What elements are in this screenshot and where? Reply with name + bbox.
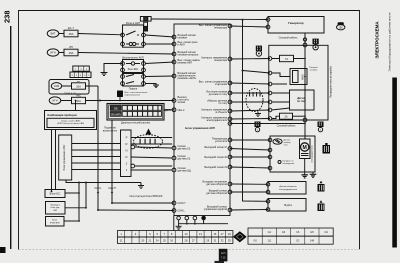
speed sensor pins (266, 183, 270, 187)
ground G2 (153, 84, 159, 86)
junction power trunk (242, 19, 244, 21)
wires ECU to motor assembly (230, 139, 270, 141)
footer smudge (215, 261, 225, 263)
wire power trunk vertical (243, 20, 269, 202)
right margin chapter text (388, 12, 392, 71)
fuse 2А (230, 118, 270, 121)
svg-text:G8: G8 (310, 230, 314, 234)
wire switch to ECU (145, 62, 174, 64)
wire generator drop (304, 33, 306, 45)
connector icon clutch (318, 200, 325, 211)
svg-text:G9: G9 (324, 230, 328, 234)
svg-text:Диагностический разъём: Диагностический разъём (121, 121, 150, 124)
arrow head stop lamp line (98, 99, 101, 101)
svg-text:G6: G6 (282, 230, 286, 234)
svg-text:C6: C6 (296, 230, 300, 234)
ground G4 shield (176, 225, 182, 227)
wire pedal switch to ground (145, 84, 156, 86)
black diamond marker (233, 231, 247, 242)
wire trunk to distribution box (243, 71, 271, 74)
pedal switch contacts (126, 75, 134, 77)
svg-text:238: 238 (3, 10, 12, 23)
CAN bus lines (94, 187, 116, 190)
wire power line to generator (151, 18, 268, 21)
svg-text:Датчик оборотов: Датчик оборотов (279, 186, 297, 188)
ECU U1 Блок управления АКП (174, 24, 230, 216)
wire ИГН to fuse 15А (59, 52, 64, 54)
motor M (300, 139, 311, 159)
triangle marker (146, 129, 152, 135)
svg-text:Электродвигатель: Электродвигатель (312, 145, 314, 163)
junction ABS bus 1 (78, 182, 80, 184)
svg-text:вставка: вставка (310, 70, 318, 72)
svg-text:датчика оборотов: датчика оборотов (206, 192, 227, 195)
ECU right pins (228, 24, 232, 212)
fuse 10А accessory (72, 97, 86, 103)
wire diag to ECU CEL (164, 109, 174, 111)
svg-text:Привод и: Привод и (50, 204, 60, 206)
junction trunk to MAX branch (242, 70, 244, 72)
wire CAN L vertical (97, 86, 99, 210)
wire selector 1 (131, 169, 172, 171)
right reference table (248, 228, 333, 244)
power cable label (279, 37, 299, 40)
svg-text:CAN H: CAN H (178, 202, 186, 205)
wire selector N (135, 147, 173, 148)
wire Привод to bus (65, 207, 86, 209)
svg-text:Спидо. лампы АКП: Спидо. лампы АКП (61, 119, 81, 122)
frame bottom edge (faint) (19, 249, 360, 251)
svg-text:G2: G2 (268, 230, 272, 234)
connector icon speed sensor (318, 181, 325, 192)
svg-text:питания: питания (178, 37, 188, 40)
svg-text:Выходной сигнал P: Выходной сигнал P (205, 146, 228, 149)
ground G5 harness (257, 112, 259, 114)
backlight label (103, 128, 118, 133)
wire fuse 25А to relay (78, 34, 123, 35)
svg-text:148: 148 (310, 238, 315, 242)
ECU pin labels left column (178, 34, 201, 212)
wire switch to ground (104, 64, 123, 73)
svg-text:111: 111 (267, 238, 271, 242)
wire stop lamp line (86, 100, 175, 102)
ground G1 (101, 72, 108, 74)
pedal switch box (123, 74, 144, 87)
wire КСС to bus (65, 192, 79, 194)
ABS control unit tall box (59, 135, 72, 180)
diagnostic connector cells row 1 (110, 106, 161, 117)
svg-text:7А: 7А (285, 57, 288, 61)
wire selector 2 (135, 165, 173, 167)
stub stop switch to wire (119, 97, 121, 101)
shield bus (179, 223, 228, 225)
ground G7 (310, 174, 317, 177)
svg-text:Выходной сигнал N: Выходной сигнал N (204, 166, 227, 169)
relay К1 contact (126, 31, 136, 35)
connector icon bottom right (318, 122, 324, 132)
arrow CAN L (97, 190, 99, 193)
wire CAN H vertical (111, 120, 113, 203)
svg-text:D: D (126, 155, 128, 159)
harness ellipse dashed 2 (246, 89, 263, 112)
svg-text:ИГН: ИГН (50, 51, 55, 55)
svg-text:E/L-7: E/L-7 (68, 27, 75, 30)
svg-text:выключатели: выключатели (103, 131, 118, 133)
wire trunk to motor (304, 120, 306, 139)
BOTTOM CONNECTOR STRIP (118, 231, 233, 244)
fuse 10А illumination (72, 83, 86, 89)
winding label (278, 161, 281, 164)
switch S1 contact (126, 63, 131, 65)
switch S1 box (123, 60, 144, 73)
svg-text:Силовой кабель: Силовой кабель (279, 37, 299, 40)
svg-text:охлаждение: охлаждение (283, 163, 296, 165)
svg-text:НД/КЛ: НД/КЛ (164, 110, 171, 112)
wires ECU to speed sensor (230, 183, 268, 185)
wire ОСВ to fuse 10А (62, 85, 72, 87)
svg-text:датчика К2: датчика К2 (178, 158, 191, 161)
ECU pin labels right column (199, 24, 228, 211)
svg-text:2А: 2А (284, 116, 287, 119)
svg-text:ИГН: ИГН (52, 99, 57, 103)
wires ECU to current sensor (230, 83, 270, 84)
stub wire to cluster (75, 101, 77, 111)
wire bus1 vertical (78, 183, 80, 222)
svg-text:кнопки: кнопки (178, 101, 186, 104)
svg-text:Коса стартера блока IPDM E/R: Коса стартера блока IPDM E/R (130, 196, 163, 198)
svg-text:электродвигателя: электродвигателя (206, 119, 227, 122)
svg-text:БАТ: БАТ (51, 32, 56, 36)
svg-text:DB (АКП): DB (АКП) (110, 113, 121, 116)
svg-text:электродвигателя: электродвигателя (279, 189, 298, 191)
MAX fusible link (268, 71, 272, 75)
wire illumination to bus (86, 85, 99, 87)
svg-text:переключателя: переключателя (125, 95, 141, 97)
svg-text:Электрооборудование на рабочем: Электрооборудование на рабочем месте (388, 12, 392, 71)
svg-text:Подсветка/: Подсветка/ (104, 128, 116, 130)
svg-text:АКС: АКС (76, 94, 81, 97)
switch S1 label (122, 56, 144, 59)
wire ECU to clutch (230, 209, 268, 212)
svg-text:G6: G6 (253, 238, 257, 242)
generator box (268, 17, 324, 34)
svg-text:режимов «АКП»: режимов «АКП» (178, 77, 197, 80)
wire ИГН2 to fuse (61, 100, 72, 102)
svg-text:ИП: ИП (69, 46, 73, 49)
connector bank above illumination (70, 66, 91, 78)
svg-text:Педали: Педали (129, 88, 138, 91)
svg-text:усилителя: усилителя (215, 140, 228, 143)
motor case ground (312, 172, 314, 175)
wire pedal switch to ECU (145, 75, 174, 78)
svg-text:Реле ФКС: Реле ФКС (128, 68, 139, 71)
svg-text:Генератор: Генератор (288, 21, 303, 25)
left margin rule (10, 26, 12, 249)
svg-text:Выходной сигнал R: Выходной сигнал R (204, 156, 227, 159)
relay К1 pin circles (121, 33, 125, 37)
svg-text:датчика К2: датчика К2 (178, 148, 191, 151)
pedal switch pins (121, 75, 125, 79)
distribution trunk (304, 45, 306, 120)
harness label (130, 196, 163, 198)
svg-text:E/SM (L.9): E/SM (L.9) (64, 92, 76, 95)
wire selector P (131, 137, 172, 139)
svg-text:режима АКП: режима АКП (178, 62, 193, 65)
svg-text:датчика по току: датчика по току (209, 93, 228, 96)
harness 2 pins (249, 92, 250, 97)
strip pin numbers (120, 232, 232, 243)
svg-text:N: N (126, 149, 128, 153)
generator pins (266, 18, 270, 22)
selector switch tall box (121, 130, 132, 177)
svg-text:блок упр.: блок упр. (51, 207, 61, 209)
accessory oval ИГН2 (49, 97, 61, 104)
clutch pins (266, 200, 270, 204)
svg-text:н-АКП: н-АКП (178, 44, 185, 47)
wire selector D (131, 157, 172, 158)
fuse 7А (272, 58, 280, 60)
svg-text:по току: по току (297, 100, 306, 103)
connector icon 2 bottom left (255, 122, 261, 132)
svg-text:CEL 2: CEL 2 (178, 109, 185, 112)
svg-text:стартером: стартером (215, 83, 227, 86)
svg-text:Блок: Блок (52, 219, 57, 221)
svg-text:Распределительная коробка: Распределительная коробка (330, 65, 333, 97)
wire selector R (131, 143, 172, 145)
svg-text:Реле-я АКП: Реле-я АКП (126, 21, 140, 25)
motor assembly box (270, 136, 315, 172)
box Блок IPDM E/R (46, 217, 65, 227)
diagnostic connector outer (107, 104, 164, 121)
relay К1 coil (129, 42, 132, 45)
motor assembly pins (268, 138, 272, 142)
table cell labels (253, 230, 328, 242)
ECU stop switch label outside (178, 96, 190, 104)
bolt connector icon 4 (256, 46, 262, 57)
connector icon right of motor (323, 143, 331, 154)
harness pins (140, 139, 141, 145)
wire CAN H to ECU (112, 202, 174, 204)
wire cluster CAN drop 1 (51, 130, 53, 192)
svg-text:M: M (303, 145, 307, 151)
wire ECU to generator (230, 26, 268, 27)
svg-text:Блок управления АБС: Блок управления АБС (63, 144, 66, 170)
inline connector on drop (303, 38, 306, 41)
svg-text:Блок КСС: Блок КСС (50, 192, 61, 195)
box Привод 360 (46, 202, 66, 215)
speed sensor box (268, 182, 306, 195)
stop switch black box (118, 91, 123, 97)
power cable label 2 (277, 125, 297, 128)
svg-text:(ЖКТ/табло) по шине CAN: (ЖКТ/табло) по шине CAN (57, 122, 84, 125)
distribution box outline (269, 45, 328, 120)
wire ECU to motor trunk junction (230, 123, 305, 125)
wires ABS to selector (72, 144, 121, 170)
svg-text:генератора: генератора (214, 59, 228, 62)
ECU shield pins row (177, 216, 181, 220)
connector bank above relay (140, 17, 143, 22)
svg-text:Блок управления АКП: Блок управления АКП (185, 126, 215, 130)
svg-text:G2: G2 (296, 238, 300, 242)
arrow CAN H (111, 190, 113, 193)
svg-text:MAX: MAX (301, 74, 305, 80)
battery terminal oval БАТ (47, 30, 59, 37)
wire IPDM to bus (64, 220, 79, 222)
diagnostic connector label (121, 121, 150, 124)
wire relay to ECU pin 2 (145, 43, 174, 45)
svg-text:нет: нет (77, 81, 80, 83)
current sensor box (290, 90, 315, 110)
wire fuse 15А to ECU pin (78, 53, 174, 55)
svg-text:питания контролл.: питания контролл. (178, 54, 200, 57)
svg-text:R: R (126, 142, 128, 146)
svg-text:7-15: 7-15 (221, 258, 226, 260)
wire БАТ to fuse 25А (59, 33, 64, 35)
wire CAN L to ECU (98, 209, 174, 212)
right margin header text (375, 21, 380, 59)
svg-text:25А: 25А (69, 32, 74, 36)
wire ABS bottom L (66, 180, 141, 183)
relay К1 Реле-я АКП label (126, 21, 140, 25)
wire relay to ECU pin 1 (145, 35, 174, 37)
diagnostic connector cells row 2 (110, 112, 121, 117)
svg-text:10А: 10А (76, 99, 81, 103)
illumination oval ОСВ (51, 83, 61, 90)
harness ellipse dashed (134, 135, 163, 149)
svg-text:датчика оборотов: датчика оборотов (206, 183, 227, 186)
svg-text:Муфта: Муфта (284, 204, 292, 207)
clutch box Муфта (268, 199, 306, 212)
switch S1 pins (121, 62, 125, 66)
fuse 25А (64, 30, 78, 37)
relay К1 box (123, 25, 144, 47)
ground G6 (301, 175, 308, 178)
distribution bottom pin (303, 118, 307, 122)
svg-text:генератора: генератора (214, 26, 228, 29)
svg-text:15А: 15А (69, 51, 74, 55)
svg-text:по току: по току (219, 102, 228, 105)
page number 238 (3, 10, 12, 23)
svg-text:Комбинация приборов: Комбинация приборов (48, 113, 78, 117)
shield pin stubs (178, 215, 180, 218)
svg-text:CAN L: CAN L (178, 210, 186, 213)
right margin thick bar (392, 78, 397, 248)
box Блок КСС (45, 190, 65, 198)
motor ground drop (304, 159, 306, 176)
svg-text:10А: 10А (76, 85, 81, 89)
wire ECU bottom to strip (173, 216, 175, 231)
bottom-left corner mark (0, 247, 6, 253)
cluster box Комбинация приборов (45, 111, 97, 130)
illumination group box (49, 80, 89, 95)
svg-text:АКП: АКП (221, 252, 226, 255)
connector oval П5 (337, 22, 345, 30)
footer page tab (219, 249, 228, 262)
wire ECU to fuse 7А (230, 58, 270, 61)
diagram frame (19, 11, 360, 250)
svg-text:DB: DB (114, 107, 118, 110)
svg-text:P: P (126, 136, 128, 140)
temperature sensor oval (273, 139, 282, 144)
wire cluster CAN drop 2 (55, 130, 57, 190)
svg-text:IPDM E/R: IPDM E/R (50, 222, 60, 224)
svg-text:управления муфтой: управления муфтой (204, 208, 228, 211)
junction ABS bus 2 (85, 182, 87, 184)
svg-text:ЭЛЕКТРОСХЕМА: ЭЛЕКТРОСХЕМА (375, 21, 380, 59)
selector pins (131, 145, 135, 149)
svg-text:датчика БД: датчика БД (178, 170, 192, 173)
svg-text:в объекте: в объекте (216, 111, 228, 114)
wire bus2 vertical (85, 183, 87, 208)
svg-text:ОСВ: ОСВ (54, 85, 60, 88)
ignition terminal oval ИГН (47, 49, 59, 56)
svg-text:Силовой кабель: Силовой кабель (277, 125, 297, 128)
cluster inner box (47, 118, 94, 127)
svg-text:Выключатель АКП: Выключатель АКП (122, 56, 144, 59)
fuse 15А (64, 49, 78, 56)
ground G3 (140, 183, 142, 186)
connector icon near generator (313, 39, 319, 50)
ECU left pins (172, 35, 176, 212)
